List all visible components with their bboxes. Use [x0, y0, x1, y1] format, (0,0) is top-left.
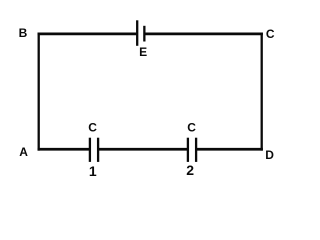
wire top-right segment (battery E to C) — [144, 33, 263, 36]
svg-text:C: C — [187, 121, 196, 135]
svg-text:A: A — [19, 145, 28, 159]
svg-text:E: E — [139, 45, 147, 59]
wire bottom-middle segment (C1 to C2) — [98, 148, 188, 151]
capacitor C2 — [188, 138, 196, 162]
wire bottom-right segment (C2 to D) — [196, 148, 263, 151]
battery E — [137, 20, 144, 46]
svg-text:D: D — [265, 148, 274, 162]
svg-text:1: 1 — [89, 163, 97, 179]
svg-text:B: B — [19, 26, 28, 40]
wire top-left segment (B to battery E) — [38, 33, 138, 36]
wire bottom-left segment (A to C1) — [38, 148, 90, 151]
wire left side (B to A) — [38, 33, 40, 151]
svg-text:C: C — [266, 27, 275, 41]
svg-text:2: 2 — [186, 162, 194, 178]
svg-text:C: C — [88, 121, 97, 135]
wire right side (C to D) — [261, 33, 263, 151]
capacitor C1 — [90, 138, 98, 162]
